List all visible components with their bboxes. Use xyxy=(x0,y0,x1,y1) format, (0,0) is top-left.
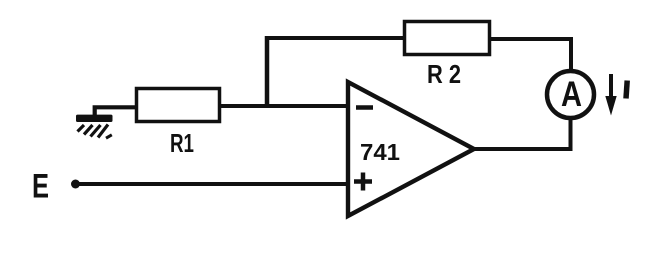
plus sign non-inverting input xyxy=(354,173,372,191)
resistor R2 xyxy=(405,22,490,55)
svg-text:A: A xyxy=(561,75,582,114)
resistor R1 xyxy=(137,89,220,122)
wire E to non-inverting input xyxy=(78,182,349,186)
svg-text:741: 741 xyxy=(360,139,400,165)
svg-text:R1: R1 xyxy=(170,128,194,158)
wire R2 to ammeter xyxy=(489,39,571,72)
node E terminal dot xyxy=(71,180,80,189)
wire ammeter to op-amp output xyxy=(473,118,571,149)
op-amp U1 (741) xyxy=(348,82,474,216)
wire ground to R1 xyxy=(95,107,137,116)
wire R1 to op-amp inverting input xyxy=(219,104,349,108)
svg-text:R 2: R 2 xyxy=(427,59,461,89)
wire feedback riser xyxy=(265,36,270,108)
wire top left to R2 xyxy=(265,36,406,40)
svg-text:E: E xyxy=(32,168,49,206)
minus sign inverting input xyxy=(356,105,373,110)
ground xyxy=(76,115,113,139)
current arrow I xyxy=(605,74,616,116)
label I xyxy=(626,81,627,99)
ammeter A xyxy=(547,71,594,118)
